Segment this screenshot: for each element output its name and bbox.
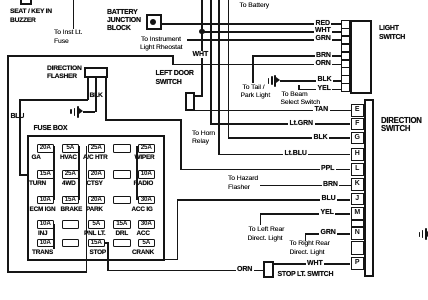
wire GRN to N pin xyxy=(305,233,351,235)
fuse 10A ECM IGN xyxy=(37,196,55,205)
wire BRN to tail/park light xyxy=(253,55,342,57)
label ORN xyxy=(314,60,332,67)
label BATTERY JUNCTION BLOCK xyxy=(107,9,138,16)
pin L xyxy=(351,163,365,176)
wire BLK to ground xyxy=(280,80,342,82)
fuse 15A BRAKE xyxy=(62,196,80,205)
fuse 15A DRL xyxy=(113,220,131,229)
fuse 20A GA xyxy=(37,144,55,153)
spare slot xyxy=(351,241,365,255)
col2 bus xyxy=(78,146,80,200)
fuse 30A ACC IG xyxy=(138,196,156,205)
label To Battery xyxy=(240,2,270,9)
left door switch box xyxy=(185,92,196,111)
label To Tail / Park Light xyxy=(243,84,265,91)
spare fuse xyxy=(113,170,131,179)
label LEFT DOOR SWITCH xyxy=(156,70,194,77)
light switch pin column xyxy=(341,20,350,29)
vertical bus D xyxy=(228,0,230,138)
junction dot xyxy=(199,29,204,34)
pin H xyxy=(351,148,365,161)
pin N xyxy=(351,227,365,240)
fuse 15A STOP xyxy=(88,239,106,248)
fuse 15A TURN xyxy=(37,170,55,179)
flasher lead BLK to ground xyxy=(95,78,97,112)
flasher lead 3 / horn relay wire xyxy=(105,78,107,121)
label To Inst Lt. Fuse xyxy=(54,29,82,36)
wire ORN long run: step + left side + bottom xyxy=(172,64,342,66)
label BLU xyxy=(11,113,25,120)
ground (tail/park) xyxy=(268,78,270,84)
vertical bus B xyxy=(210,0,212,124)
pin G xyxy=(351,132,365,145)
vertical bus A xyxy=(201,0,203,97)
vertical bus C xyxy=(218,0,220,154)
label SEAT / KEY IN BUZZER xyxy=(10,8,52,15)
fuse 10A INJ xyxy=(37,220,55,229)
fuse 30A ACC xyxy=(138,220,156,229)
col3 bus / pnl lt wire xyxy=(86,146,88,273)
light switch body xyxy=(350,20,373,94)
label FUSE BOX xyxy=(34,125,68,132)
wire RED battery to light switch xyxy=(161,23,342,25)
wire WHT to light switch xyxy=(202,31,342,33)
col1 bus upper xyxy=(53,146,55,200)
label DIRECTION SWITCH xyxy=(381,116,422,125)
wire Lt.GRN to F pin xyxy=(210,123,350,125)
fuse 20A PARK xyxy=(88,196,106,205)
top lead to bus A xyxy=(195,95,203,97)
seat/key buzzer box xyxy=(20,0,32,5)
wire BRN to K pin xyxy=(260,185,351,187)
wire GRN to light switch xyxy=(187,39,342,41)
label To Hazard Flasher xyxy=(228,175,258,182)
wire PPL to L pin xyxy=(180,169,350,171)
label LIGHT SWITCH xyxy=(379,25,399,32)
label RED xyxy=(314,20,331,27)
direction flasher label xyxy=(47,65,82,72)
label GRN xyxy=(314,35,332,42)
spare fuse xyxy=(113,239,131,248)
label To Horn Relay xyxy=(192,130,215,137)
label STOP LT. SWITCH xyxy=(278,271,334,278)
fuse 10A TRANS xyxy=(37,239,55,248)
wire TAN to E pin xyxy=(195,110,351,112)
label WHT xyxy=(314,27,333,34)
wire BLK to G pin xyxy=(228,137,351,139)
pin P xyxy=(351,257,365,270)
fuse 5A HVAC xyxy=(62,144,80,153)
wire Lt.BLU to H pin xyxy=(218,154,350,156)
label To Left Rear Direct. Light xyxy=(249,226,285,233)
spare fuse xyxy=(62,239,80,248)
flasher lead BLU xyxy=(87,78,89,100)
label To Right Rear Direct. Light xyxy=(290,240,330,247)
fuse 25A WIPER xyxy=(138,144,156,153)
label TAN xyxy=(313,106,330,113)
wire YEL to M pin xyxy=(260,213,351,215)
label BLK xyxy=(316,76,333,83)
pin K xyxy=(351,178,365,191)
wire to inst lt fuse xyxy=(73,0,75,29)
spare fuse xyxy=(62,220,80,229)
pin F xyxy=(351,118,365,131)
label YEL xyxy=(316,85,332,92)
stop light switch box xyxy=(263,261,275,278)
spare slot xyxy=(351,220,365,228)
wire YEL beam select xyxy=(298,89,341,91)
fuse 5A CRANK xyxy=(138,239,156,248)
wire to TURN fuse xyxy=(19,174,37,176)
pin J xyxy=(351,193,365,206)
label To Instrument Light Rheostat xyxy=(141,36,181,43)
label WHT on bus A xyxy=(191,51,210,58)
ground (right edge) xyxy=(419,232,421,237)
label BLK xyxy=(90,92,103,99)
label BRN xyxy=(315,52,333,59)
fuse 10A RADIO xyxy=(138,170,156,179)
label To Beam Select Switch xyxy=(282,91,308,98)
spare fuse xyxy=(113,196,131,205)
col1 bus lower xyxy=(53,224,55,249)
fuse 20A CTSY xyxy=(88,170,106,179)
direction switch body xyxy=(364,99,375,277)
wire BLU to J pin xyxy=(177,199,351,201)
fuse box xyxy=(27,135,165,261)
fuse 25A 4WD xyxy=(62,170,80,179)
wire ORN from STOP fuse xyxy=(105,242,109,244)
fuse 25A A/C HTR xyxy=(88,144,106,153)
col5 bus xyxy=(136,146,138,200)
fuse 5A PNL LT. xyxy=(88,220,106,229)
ground (flasher) xyxy=(70,109,72,114)
pin M xyxy=(351,207,365,220)
direction switch pin E xyxy=(351,104,365,117)
spare fuse xyxy=(113,144,131,153)
direction flasher box xyxy=(84,67,108,78)
wire WHT to P pin xyxy=(274,263,350,265)
battery junction block xyxy=(146,14,162,30)
